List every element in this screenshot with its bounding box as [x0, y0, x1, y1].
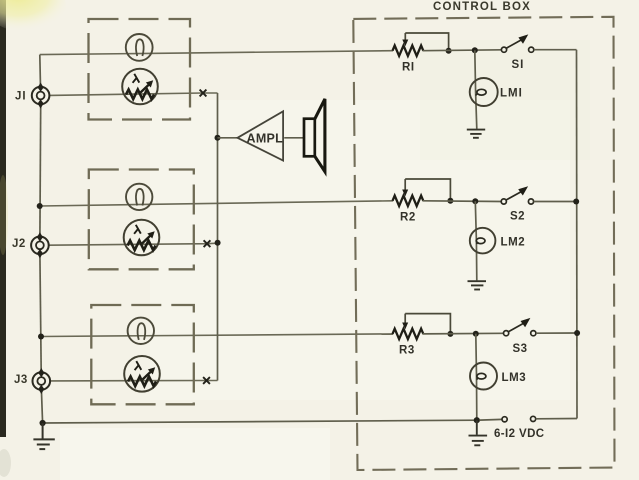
lamp LM3 [470, 334, 497, 421]
wire: left bus vertical [39, 55, 42, 87]
wire: lamp row 2 horizontal [40, 201, 393, 206]
svg-text:S2: S2 [510, 211, 525, 223]
jack J3 [33, 368, 51, 394]
battery connector terminals 6-12VDC [480, 416, 578, 422]
wire: S1 to right bus [534, 49, 577, 51]
svg-text:LMI: LMI [500, 88, 523, 100]
resistor R1 (rheostat) [393, 33, 449, 56]
junction dot: row2 to amp bus [215, 240, 221, 246]
crossover X node row 3 [203, 377, 210, 384]
junction dot R2 wiper [447, 198, 453, 204]
wire: S3 to right bus [536, 332, 577, 334]
junction dot: bottom rail corner [40, 420, 46, 426]
junction dot right bus row2 [573, 199, 579, 205]
switch S1 [501, 34, 533, 52]
photocell symbol box2 [124, 220, 160, 256]
wire: R2 to S2 [423, 200, 502, 203]
speaker [304, 99, 325, 172]
resistor R2 (rheostat) [393, 179, 451, 206]
svg-text:6-I2 VDC: 6-I2 VDC [494, 428, 545, 440]
svg-text:LM3: LM3 [502, 372, 527, 384]
photocell symbol box1 [122, 69, 158, 105]
junction dot right bus row3 [574, 330, 580, 336]
switch S3 [504, 318, 536, 336]
jack J2 [31, 232, 49, 258]
wire: S2 to right bus [534, 201, 577, 203]
svg-text:JI: JI [15, 91, 27, 103]
crossover X node row 1 [200, 90, 207, 97]
junction dot R3 wiper [447, 331, 453, 337]
svg-text:LM2: LM2 [501, 237, 526, 249]
dashed enclosure box 1 [89, 19, 191, 120]
junction dot LM1 branch [472, 47, 478, 53]
ground under LM2 [468, 281, 487, 289]
junction dot: left bus lamp row 2 [37, 203, 43, 209]
svg-text:SI: SI [512, 59, 525, 71]
photocell symbol box3 [124, 356, 160, 392]
wire: bottom ground rail [43, 420, 477, 423]
junction dot LM2 branch [472, 198, 478, 204]
wire: photocell row 2 (J2 to bus) [49, 243, 218, 245]
lamp symbol box3 [128, 318, 154, 344]
lamp LM2 [470, 201, 496, 280]
lamp symbol box2 [126, 184, 152, 210]
wire: lamp row 3 horizontal [41, 334, 393, 337]
svg-text:CONTROL BOX: CONTROL BOX [433, 1, 531, 13]
resistor R3 (rheostat) [393, 314, 451, 339]
junction dot R1 wiper [446, 48, 452, 54]
svg-text:AMPL: AMPL [247, 132, 284, 146]
wire: right bus vertical [576, 50, 579, 419]
wire: amp input bus vertical [217, 93, 219, 381]
svg-text:RI: RI [402, 62, 415, 74]
scan edge dark strip [0, 0, 6, 437]
jack J1 [32, 83, 50, 109]
dashed enclosure box 2 [89, 170, 194, 270]
switch S2 [501, 186, 533, 204]
wire: photocell row 1 (J1 to X1) [49, 93, 217, 95]
ground under LM3 [469, 420, 488, 445]
svg-text:R3: R3 [399, 345, 415, 357]
wire: amp feed [218, 137, 238, 139]
wire: R3 to S3 [423, 332, 504, 335]
CONTROL BOX dashed border [353, 17, 614, 470]
op-amp AMPL triangle [238, 111, 284, 160]
crossover X node row 2 [204, 240, 211, 247]
svg-text:S3: S3 [513, 343, 528, 355]
ground (left bus bottom) [33, 423, 54, 449]
junction dot battery rail [474, 417, 480, 423]
svg-text:J3: J3 [14, 374, 28, 386]
lamp symbol box1 [126, 34, 153, 61]
scan stain top-left [0, 0, 66, 32]
lamp LM1 [470, 50, 498, 129]
dashed enclosure box 3 [91, 305, 194, 404]
junction dot: left bus lamp row 3 [38, 334, 44, 340]
wire: lamp row 1 horizontal [40, 51, 393, 55]
junction dot LM3 branch [473, 331, 479, 337]
wire: amp to speaker [284, 137, 304, 139]
ground under LM1 [467, 130, 485, 138]
wire: R1 to S1 [423, 49, 502, 52]
junction dot: amp feed [215, 135, 221, 141]
wire: photocell row 3 (J3 to X3) [50, 380, 217, 382]
svg-text:R2: R2 [400, 212, 416, 224]
svg-text:J2: J2 [12, 238, 26, 250]
